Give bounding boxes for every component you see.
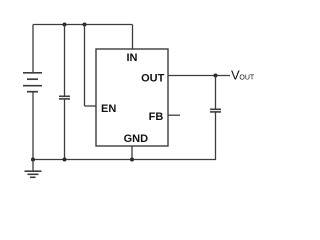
input capacitor [59, 96, 70, 99]
regulator IC body [96, 49, 168, 146]
wire: output cap bottom lead [215, 113, 217, 160]
wire: battery positive lead [32, 25, 34, 73]
wire: IN pin drop [132, 25, 134, 50]
pin label FB [149, 111, 164, 123]
wire: EN horizontal into pin [85, 105, 97, 107]
svg-text:IN: IN [127, 52, 138, 64]
wire: input cap top lead [64, 25, 66, 96]
net label VOUT [231, 68, 255, 83]
svg-text:OUT: OUT [141, 72, 165, 84]
svg-text:EN: EN [101, 103, 116, 115]
ground [25, 160, 42, 178]
pin label GND [124, 133, 149, 145]
battery [23, 73, 42, 92]
wire: FB stub [168, 114, 180, 116]
svg-text:GND: GND [124, 133, 149, 145]
node: GND junction [130, 158, 134, 162]
wire: top rail from battery to IN [33, 24, 133, 26]
pin label IN [127, 52, 138, 64]
wire: EN vertical [84, 25, 86, 107]
node: input cap top junction [63, 23, 67, 27]
node: ground junction [31, 158, 35, 162]
pin label OUT [141, 72, 165, 84]
wire: input cap bottom lead [64, 100, 66, 160]
node: EN tap junction [83, 23, 87, 27]
wire: OUT pin to VOUT [168, 75, 230, 77]
wire: output cap top lead [215, 76, 217, 109]
svg-text:FB: FB [149, 111, 164, 123]
pin label EN [101, 103, 116, 115]
wire: GND pin drop [131, 146, 133, 160]
node: input cap bottom junction [63, 158, 67, 162]
svg-text:OUT: OUT [239, 75, 255, 82]
node: output cap junction [214, 74, 218, 78]
output capacitor [210, 109, 221, 112]
wire: battery negative lead [32, 92, 34, 160]
wire: bottom rail [33, 159, 216, 161]
